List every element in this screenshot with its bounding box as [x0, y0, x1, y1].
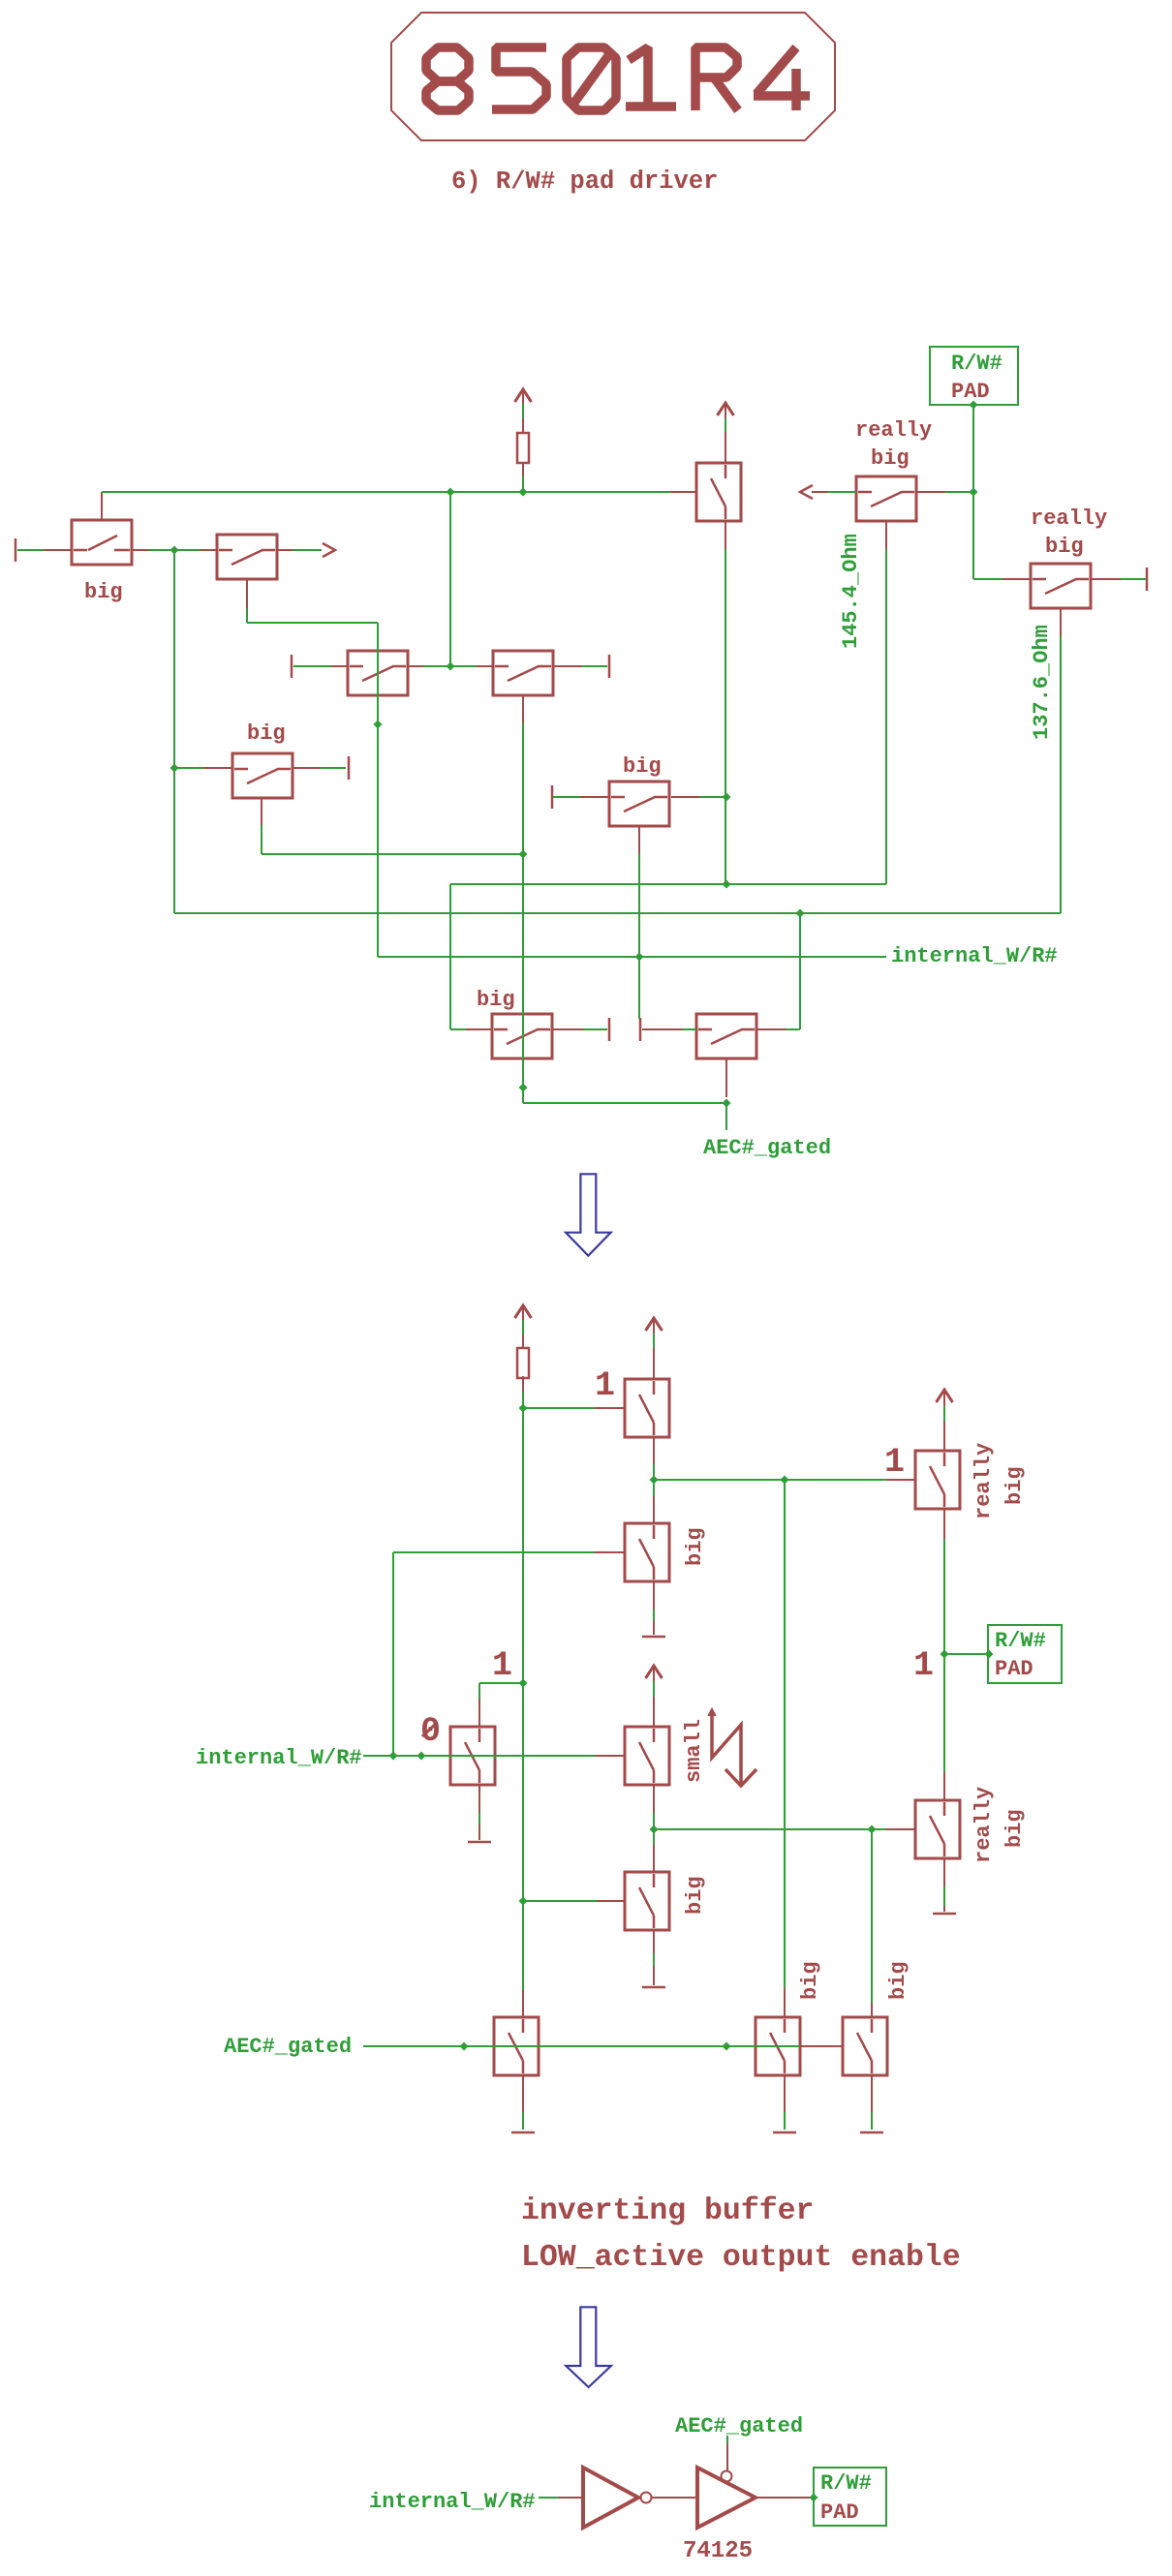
- pull-up resistor 2: [517, 1348, 529, 1378]
- svg-text:AEC#_gated: AEC#_gated: [703, 1136, 831, 1160]
- terminal bar T5: [551, 785, 554, 809]
- svg-text:big: big: [623, 754, 662, 779]
- logo text 8501R4: [426, 47, 810, 110]
- junction dots schematic 2: [389, 1404, 994, 2051]
- svg-text:PAD: PAD: [951, 380, 990, 404]
- label really big L: [972, 1443, 1027, 1519]
- ground R: [511, 2131, 535, 2134]
- output wire: [756, 2497, 814, 2499]
- ground P: [642, 1986, 665, 1989]
- svg-text:PAD: PAD: [995, 1657, 1033, 1681]
- VCC symbol 3: [515, 1305, 532, 1318]
- ground O: [468, 1841, 491, 1844]
- transistor R: [494, 2017, 539, 2075]
- svg-text:inverting buffer: inverting buffer: [521, 2194, 814, 2228]
- label big Q10: [477, 988, 515, 1012]
- pin stubs schematic 2: [421, 1305, 944, 2112]
- ground S: [860, 2131, 883, 2134]
- label big Q6: [623, 754, 662, 779]
- VCC symbol 4: [646, 1318, 663, 1331]
- label really big Q: [972, 1787, 1027, 1863]
- off-sheet arrow right: [323, 543, 335, 557]
- svg-text:big: big: [871, 446, 910, 471]
- wire between inverters: [652, 2497, 697, 2499]
- port R/W# PAD 3: [814, 2468, 886, 2526]
- ground T: [773, 2131, 796, 2134]
- svg-text:R/W#: R/W#: [951, 352, 1002, 376]
- label 1 J: [595, 1366, 615, 1405]
- transistor 1-switch J: [625, 1379, 669, 1437]
- net label internal_W/R# 3: [369, 2490, 536, 2514]
- wires schematic 1: [17, 404, 1146, 1130]
- blue flow arrow 2: [566, 2307, 611, 2387]
- svg-text:PAD: PAD: [820, 2500, 859, 2525]
- svg-text:1: 1: [884, 1443, 905, 1482]
- svg-text:big: big: [1045, 535, 1084, 559]
- terminal bar T7: [639, 1018, 642, 1041]
- label small N: [682, 1719, 706, 1783]
- transistor Q4: [493, 651, 553, 695]
- off-sheet arrow left: [800, 485, 813, 499]
- label big T: [798, 1961, 822, 2000]
- port R/W# PAD 2: [988, 1625, 1062, 1683]
- svg-text:small: small: [682, 1719, 706, 1783]
- transistor big M: [625, 1523, 669, 1581]
- pull-up resistor: [517, 433, 529, 463]
- net label internal_W/R# 1: [891, 944, 1058, 968]
- label big Q5: [247, 721, 286, 746]
- transistor really big Q: [915, 1800, 960, 1858]
- svg-text:big: big: [886, 1961, 910, 2000]
- net label AEC#_gated 2: [224, 2035, 352, 2059]
- transistor Q2: [217, 535, 277, 579]
- falling edge symbol: [709, 1710, 757, 1787]
- VCC symbol 1: [515, 389, 532, 402]
- transistor really big Q8: [856, 476, 916, 521]
- svg-text:big: big: [84, 580, 123, 604]
- svg-text:R/W#: R/W#: [995, 1629, 1046, 1653]
- transistor really big L: [915, 1451, 960, 1509]
- svg-text:internal_W/R#: internal_W/R#: [369, 2490, 536, 2514]
- terminal bar T4: [348, 756, 351, 780]
- svg-text:internal_W/R#: internal_W/R#: [196, 1746, 362, 1770]
- net label internal_W/R# 2: [196, 1746, 362, 1770]
- svg-text:1: 1: [913, 1646, 934, 1685]
- junction output: [810, 2494, 818, 2502]
- terminal bar T6: [608, 1018, 611, 1041]
- transistor Q7 vertical: [696, 463, 741, 521]
- label big M: [683, 1527, 707, 1566]
- transistor big T: [756, 2017, 800, 2075]
- terminal bar T2: [291, 655, 293, 678]
- svg-text:really: really: [972, 1787, 996, 1863]
- terminal bar T3: [608, 655, 611, 678]
- label 74125: [683, 2538, 753, 2564]
- transistor Q3: [348, 651, 408, 695]
- svg-text:big: big: [798, 1961, 822, 2000]
- transistor big S: [843, 2017, 887, 2075]
- transistor big P: [625, 1872, 669, 1930]
- label big S: [886, 1961, 910, 2000]
- svg-text:big: big: [683, 1527, 707, 1566]
- net label AEC#_gated 3: [675, 2414, 803, 2438]
- svg-text:big: big: [683, 1876, 707, 1915]
- svg-text:big: big: [477, 988, 515, 1012]
- terminal bar T1: [15, 538, 17, 562]
- title text: [451, 168, 718, 196]
- terminal bar T8: [1146, 567, 1149, 591]
- pin stubs schematic 1: [44, 389, 1121, 1097]
- transistor Q11: [696, 1014, 756, 1058]
- svg-text:AEC#_gated: AEC#_gated: [224, 2035, 352, 2059]
- svg-text:0: 0: [420, 1712, 441, 1751]
- transistor big Q10: [492, 1014, 552, 1058]
- wire input inverter: [539, 2497, 583, 2499]
- label 1 L: [884, 1443, 905, 1482]
- label really big Q9: [1031, 506, 1107, 559]
- svg-text:really: really: [855, 418, 932, 443]
- svg-text:6) R/W# pad driver: 6) R/W# pad driver: [451, 168, 718, 196]
- net label AEC#_gated 1: [703, 1136, 831, 1160]
- ground Q: [933, 1913, 956, 1916]
- label 1 O-top: [492, 1646, 512, 1685]
- svg-text:1: 1: [595, 1366, 615, 1405]
- junction dots schematic 1: [170, 401, 978, 1108]
- label 145.4_Ohm: [839, 534, 863, 649]
- svg-text:really: really: [1031, 506, 1107, 531]
- VCC symbol 2: [718, 403, 734, 415]
- svg-text:1: 1: [492, 1646, 512, 1685]
- svg-text:R/W#: R/W#: [820, 2471, 872, 2496]
- inverter U1: [583, 2468, 652, 2528]
- label really big Q8: [855, 418, 932, 471]
- svg-text:137.6_Ohm: 137.6_Ohm: [1030, 625, 1054, 740]
- tri-state buffer U2: [697, 2468, 756, 2528]
- transistor big Q1: [72, 520, 132, 565]
- transistor big Q5: [232, 753, 293, 798]
- transistor small N: [625, 1727, 669, 1785]
- svg-text:internal_W/R#: internal_W/R#: [891, 944, 1058, 968]
- svg-text:big: big: [1002, 1466, 1027, 1505]
- svg-text:big: big: [1002, 1809, 1027, 1848]
- enable wire: [726, 2436, 728, 2470]
- svg-text:LOW_active output enable: LOW_active output enable: [521, 2241, 961, 2275]
- VCC symbol 5: [937, 1390, 953, 1402]
- transistor big Q6: [609, 782, 669, 826]
- caption text: [521, 2194, 961, 2275]
- port R/W# PAD 1: [930, 347, 1018, 405]
- blue flow arrow 1: [566, 1174, 611, 1255]
- label big P: [683, 1876, 707, 1915]
- label 0 O: [420, 1712, 441, 1751]
- ground M: [642, 1636, 665, 1639]
- label big Q1: [84, 580, 123, 604]
- svg-text:really: really: [972, 1443, 996, 1519]
- VCC symbol 6: [646, 1666, 663, 1678]
- label 1 pad: [913, 1646, 934, 1685]
- transistor 0-switch O: [450, 1727, 495, 1785]
- wires schematic 2: [363, 1320, 988, 2130]
- logo octagon border: [391, 13, 835, 140]
- svg-text:AEC#_gated: AEC#_gated: [675, 2414, 803, 2438]
- label 137.6_Ohm: [1030, 625, 1054, 740]
- transistor really big Q9: [1031, 564, 1091, 608]
- svg-text:145.4_Ohm: 145.4_Ohm: [839, 534, 863, 649]
- svg-text:big: big: [247, 721, 286, 746]
- svg-text:74125: 74125: [683, 2538, 753, 2564]
